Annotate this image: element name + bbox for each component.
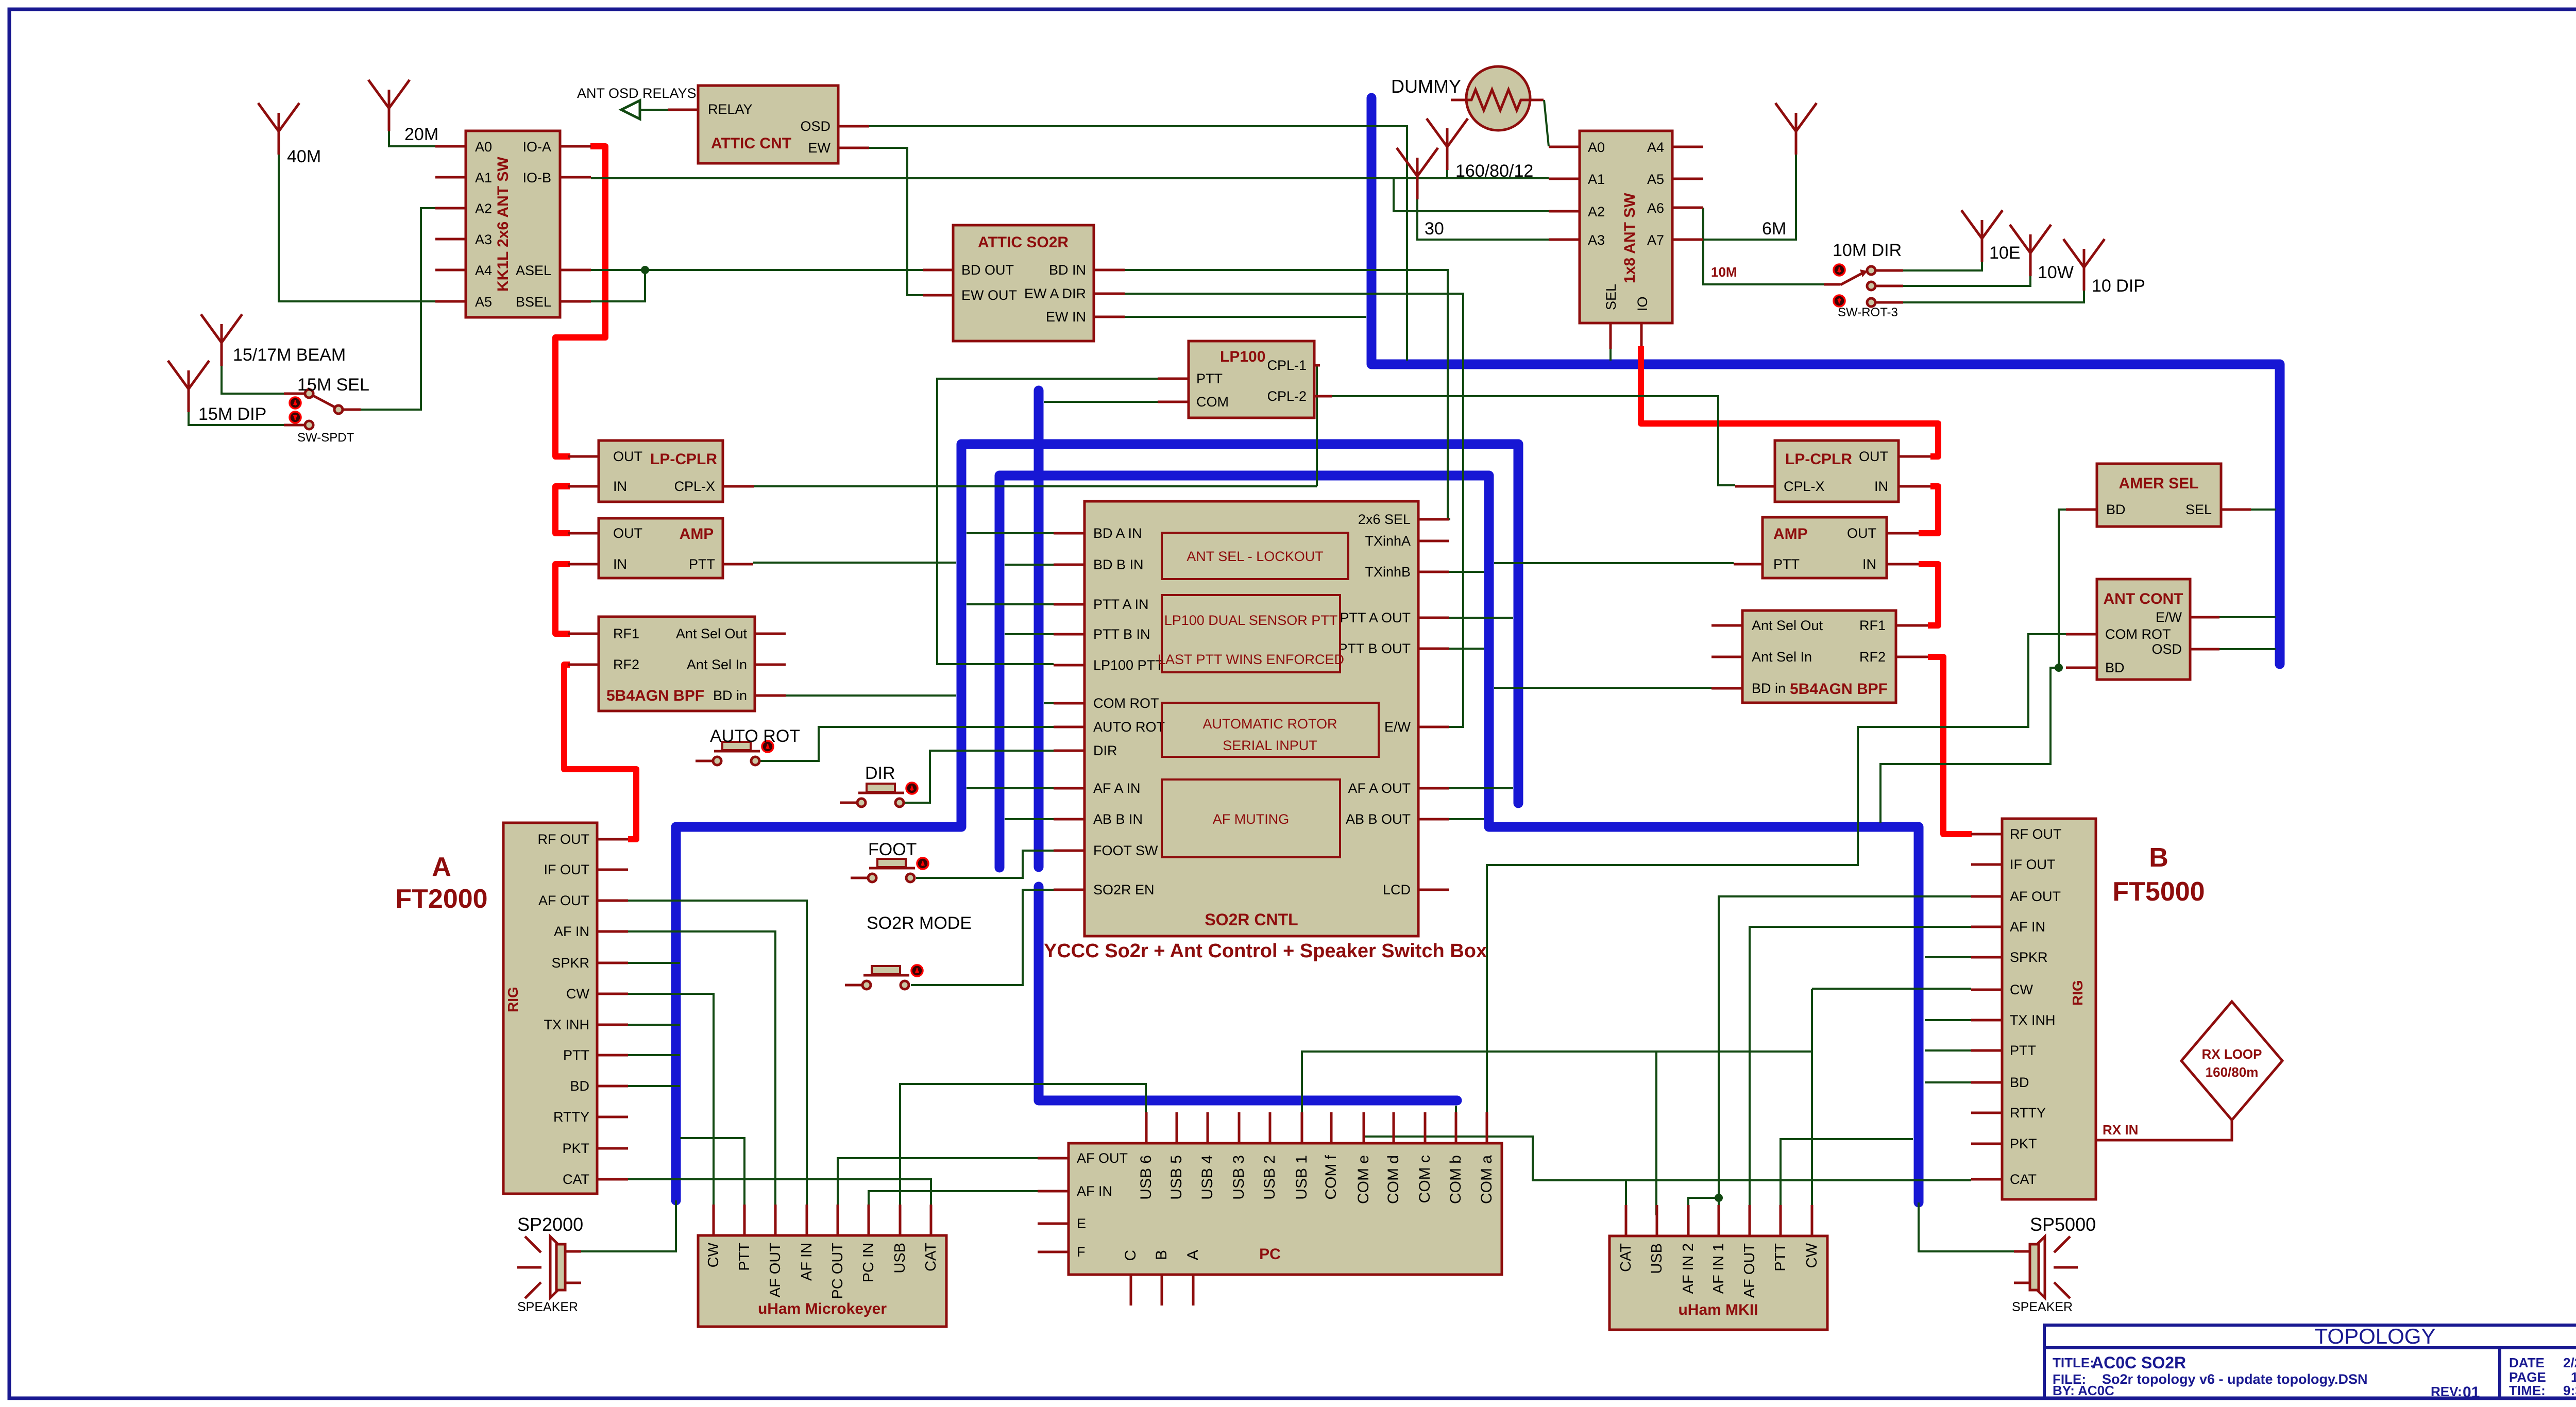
svg-text:OSD: OSD bbox=[800, 118, 831, 134]
svg-text:LCD: LCD bbox=[1383, 882, 1411, 897]
antenna 10E bbox=[1961, 210, 2003, 262]
svg-text:EW IN: EW IN bbox=[1046, 309, 1086, 325]
title block bbox=[2044, 1324, 2576, 1401]
svg-text:AMP: AMP bbox=[680, 525, 714, 543]
svg-text:AUTO ROT: AUTO ROT bbox=[1093, 719, 1165, 735]
controller SO2R CNTL bbox=[1054, 501, 1449, 936]
wire red RF: KK1L IO-A to LP-CPLR OUT bbox=[555, 146, 605, 456]
svg-text:EW OUT: EW OUT bbox=[961, 287, 1017, 303]
node ANT CONT BD junction bbox=[2055, 664, 2063, 672]
svg-text:PTT: PTT bbox=[1772, 1243, 1789, 1272]
wire AMER SEL SEL to blue bus A bbox=[2251, 508, 2276, 511]
wire SO2R CNTL TXinhB to blue bus D bbox=[1449, 571, 1484, 573]
wire SW-ROT-3 bottom throw to 10 DIP antenna bbox=[1903, 291, 2084, 302]
svg-text:15/17M BEAM: 15/17M BEAM bbox=[233, 345, 346, 365]
svg-text:LAST PTT WINS ENFORCED: LAST PTT WINS ENFORCED bbox=[1158, 652, 1344, 667]
svg-text:A: A bbox=[432, 852, 451, 882]
wire uHam MKII CW riser to FT5000 CW bbox=[1812, 989, 1971, 1215]
net label ANT OSD RELAYS with arrow bbox=[577, 86, 697, 119]
svg-text:A0: A0 bbox=[1588, 140, 1605, 155]
svg-text:uHam Microkeyer: uHam Microkeyer bbox=[758, 1300, 887, 1317]
wire 20M antenna to KK1L A0 bbox=[389, 131, 435, 146]
svg-text:B: B bbox=[1153, 1250, 1170, 1260]
wire KK1L ASEL to ATTIC SO2R BD OUT bbox=[591, 269, 925, 271]
svg-text:SO2R EN: SO2R EN bbox=[1093, 882, 1155, 897]
svg-text:PKT: PKT bbox=[2010, 1136, 2037, 1151]
svg-text:A2: A2 bbox=[1588, 204, 1605, 219]
svg-text:BD IN: BD IN bbox=[1049, 262, 1086, 278]
svg-text:IN: IN bbox=[1862, 556, 1876, 572]
svg-text:PC: PC bbox=[1259, 1246, 1281, 1263]
svg-text:EW: EW bbox=[808, 140, 831, 156]
antenna switch 1x8 ANT SW bbox=[1549, 131, 1703, 349]
svg-text:PC OUT: PC OUT bbox=[829, 1243, 846, 1299]
svg-text:RTTY: RTTY bbox=[2010, 1105, 2046, 1121]
svg-text:LP-CPLR: LP-CPLR bbox=[1785, 451, 1852, 468]
wire 1x8 SEL to blue bus A bbox=[1609, 349, 1612, 361]
svg-text:PTT: PTT bbox=[1196, 371, 1223, 386]
svg-text:ANT OSD RELAYS: ANT OSD RELAYS bbox=[577, 86, 697, 101]
wire SW-ROT-3 middle throw to 10W antenna bbox=[1903, 276, 2030, 286]
svg-text:A0: A0 bbox=[475, 139, 492, 155]
antenna 10W bbox=[2010, 225, 2051, 276]
wire uHam MKII PTT to blue bus D bbox=[1781, 1139, 1913, 1215]
svg-text:SP5000: SP5000 bbox=[2030, 1214, 2096, 1235]
svg-text:RF OUT: RF OUT bbox=[2010, 826, 2062, 842]
svg-text:CAT: CAT bbox=[2010, 1172, 2037, 1187]
svg-text:AF IN 1: AF IN 1 bbox=[1710, 1243, 1727, 1294]
svg-text:OUT: OUT bbox=[1847, 525, 1876, 541]
svg-text:FOOT SW: FOOT SW bbox=[1093, 843, 1158, 858]
wire SO2R CNTL AB B IN from blue bus D bbox=[1005, 818, 1054, 820]
wire FT2000 PTT to blue bus bbox=[628, 1054, 680, 1056]
pushbutton FOOT bbox=[851, 858, 928, 882]
coupler right LP-CPLR bbox=[1735, 440, 1930, 502]
svg-text:10M DIR: 10M DIR bbox=[1833, 241, 1902, 260]
svg-text:30: 30 bbox=[1425, 219, 1444, 239]
svg-text:ATTIC SO2R: ATTIC SO2R bbox=[978, 234, 1069, 251]
wire PC COM a to ANT CONT COM ROT bbox=[1487, 634, 2066, 1119]
antenna 20M bbox=[368, 80, 410, 131]
svg-text:RF1: RF1 bbox=[1859, 618, 1886, 633]
svg-text:ASEL: ASEL bbox=[516, 263, 551, 278]
wire FT2000 TX INH to blue bus bbox=[628, 1024, 680, 1026]
svg-text:BD OUT: BD OUT bbox=[961, 262, 1014, 278]
svg-text:BD A IN: BD A IN bbox=[1093, 525, 1142, 541]
svg-text:DUMMY: DUMMY bbox=[1391, 76, 1461, 97]
svg-text:40M: 40M bbox=[287, 147, 321, 166]
wire 15M SEL pole to KK1L A2 bbox=[361, 208, 435, 410]
svg-text:PC IN: PC IN bbox=[860, 1243, 877, 1282]
svg-text:AC0C SO2R: AC0C SO2R bbox=[2092, 1353, 2186, 1372]
wire LP100 CPL-2 to right LP-CPLR CPL-X bbox=[1332, 396, 1735, 485]
svg-text:B: B bbox=[2149, 843, 2168, 873]
wire ANT CONT OSD to blue bus A bbox=[2219, 648, 2276, 650]
amplifier right AMP bbox=[1734, 517, 1919, 578]
bandpass filter right 5B4AGN BPF bbox=[1711, 611, 1928, 703]
svg-text:IO-A: IO-A bbox=[522, 139, 551, 155]
wire blue bus B lower (PC audio to sound card) bbox=[1039, 887, 1457, 1100]
svg-text:AUTOMATIC ROTOR: AUTOMATIC ROTOR bbox=[1202, 716, 1337, 732]
wire blue bus B end to PC COM b bbox=[1455, 1106, 1457, 1119]
wire uHam MKII AF OUT to FT5000 AF IN bbox=[1750, 927, 1971, 1215]
selector AMER SEL bbox=[2066, 464, 2251, 527]
wire FT2000 AF IN to uHam Microkeyer AF OUT bbox=[628, 931, 775, 1205]
svg-text:CPL-2: CPL-2 bbox=[1267, 388, 1307, 404]
svg-text:BD: BD bbox=[2105, 660, 2125, 675]
svg-text:AF IN: AF IN bbox=[554, 924, 589, 939]
svg-text:AF A IN: AF A IN bbox=[1093, 781, 1141, 796]
svg-text:COM ROT: COM ROT bbox=[2105, 626, 2171, 642]
svg-text:PKT: PKT bbox=[562, 1141, 589, 1156]
wire uHam MKII AF IN 1 to FT5000 AF OUT bbox=[1719, 896, 1971, 1215]
controller ANT CONT bbox=[2066, 579, 2219, 680]
svg-text:10 DIP: 10 DIP bbox=[2092, 276, 2145, 296]
pushbutton SO2R MODE bbox=[845, 965, 923, 989]
wire PC USB 1 to blue bus B / CW net bbox=[1302, 1052, 1812, 1119]
svg-text:USB: USB bbox=[1649, 1243, 1665, 1274]
svg-text:TITLE:: TITLE: bbox=[2053, 1355, 2094, 1370]
wire FT5000 SPKR from blue bus D bbox=[1925, 956, 1971, 958]
svg-text:ANT CONT: ANT CONT bbox=[2104, 590, 2183, 607]
svg-text:AB B IN: AB B IN bbox=[1093, 811, 1143, 827]
svg-text:5B4AGN BPF: 5B4AGN BPF bbox=[606, 687, 704, 704]
svg-text:AF OUT: AF OUT bbox=[1077, 1150, 1128, 1166]
svg-text:USB 3: USB 3 bbox=[1230, 1155, 1247, 1200]
svg-text:IN: IN bbox=[1874, 479, 1888, 494]
svg-text:PTT B IN: PTT B IN bbox=[1093, 626, 1150, 642]
svg-text:BD in: BD in bbox=[1752, 681, 1786, 696]
svg-text:EW A DIR: EW A DIR bbox=[1024, 286, 1086, 301]
svg-text:AF MUTING: AF MUTING bbox=[1213, 811, 1290, 827]
wire FT2000 BD to blue bus bbox=[628, 1085, 680, 1087]
svg-text:COM f: COM f bbox=[1323, 1155, 1340, 1199]
switch SW-ROT-3 10M DIR bbox=[1711, 241, 1903, 319]
svg-text:USB 4: USB 4 bbox=[1199, 1155, 1216, 1200]
svg-text:COM: COM bbox=[1196, 394, 1229, 410]
wire SO2R CNTL BD A IN from blue bus C bbox=[967, 532, 1054, 534]
antenna 40M bbox=[258, 103, 299, 155]
wire blue audio bus A (attic/antenna-control bundle) bbox=[1371, 98, 2280, 664]
svg-text:COM a: COM a bbox=[1478, 1155, 1495, 1204]
svg-text:IO-B: IO-B bbox=[522, 170, 551, 185]
wire red RF: BPF RF2 to FT2000 RF OUT bbox=[564, 665, 636, 839]
wire uHam MKII USB riser bbox=[1655, 1052, 1657, 1215]
svg-text:A5: A5 bbox=[475, 294, 492, 310]
svg-text:RF1: RF1 bbox=[613, 626, 639, 641]
wire red RF: AMP IN to BPF RF1 bbox=[555, 564, 570, 634]
svg-text:AF IN: AF IN bbox=[799, 1243, 815, 1281]
svg-text:FT5000: FT5000 bbox=[2112, 877, 2205, 907]
svg-text:CW: CW bbox=[705, 1242, 722, 1267]
speaker SP5000 bbox=[2012, 1214, 2096, 1314]
svg-text:COM b: COM b bbox=[1447, 1155, 1464, 1204]
antenna 160/80/12 bbox=[1427, 118, 1468, 170]
wire LP100 COM from blue bus B bbox=[1044, 401, 1158, 403]
wire uHam Microkeyer PTT to blue bus bbox=[680, 1138, 744, 1205]
bandpass filter left 5B4AGN BPF bbox=[568, 617, 786, 711]
wire SO2R CNTL PTT A OUT to blue bus C bbox=[1449, 617, 1513, 619]
svg-text:2/20/2012: 2/20/2012 bbox=[2563, 1355, 2576, 1370]
wire SO2R CNTL COM ROT from blue bus B bbox=[1044, 702, 1054, 704]
svg-text:OUT: OUT bbox=[1859, 449, 1888, 464]
svg-text:C: C bbox=[1122, 1250, 1139, 1261]
svg-text:USB 1: USB 1 bbox=[1293, 1155, 1310, 1200]
wire LP-CPLR CPL-X to LP100 CPL-1 bbox=[754, 485, 1317, 487]
svg-text:COM e: COM e bbox=[1355, 1155, 1372, 1204]
svg-text:A6: A6 bbox=[1647, 200, 1664, 216]
antenna switch KK1L 2x6 ANT SW bbox=[435, 131, 591, 317]
svg-text:IF OUT: IF OUT bbox=[544, 862, 590, 877]
wire uHam Microkeyer PC IN to PC AF IN bbox=[869, 1191, 1038, 1205]
svg-text:TXinhA: TXinhA bbox=[1365, 533, 1411, 549]
wire SO2R CNTL PTT B IN from blue bus D bbox=[1005, 633, 1054, 635]
svg-text:A: A bbox=[1184, 1250, 1201, 1260]
svg-text:OUT: OUT bbox=[613, 449, 642, 464]
svg-text:AF OUT: AF OUT bbox=[767, 1243, 784, 1298]
wire ATTIC CNT EW to ATTIC SO2R EW OUT bbox=[869, 148, 923, 295]
svg-text:20M: 20M bbox=[404, 125, 438, 144]
svg-text:5B4AGN BPF: 5B4AGN BPF bbox=[1790, 681, 1888, 698]
svg-text:AF OUT: AF OUT bbox=[538, 893, 589, 908]
computer PC box bbox=[1038, 1112, 1502, 1306]
svg-text:OUT: OUT bbox=[613, 525, 642, 541]
svg-text:BY: AC0C: BY: AC0C bbox=[2053, 1383, 2114, 1398]
controller ATTIC CNT bbox=[668, 86, 869, 163]
svg-text:CAT: CAT bbox=[563, 1172, 589, 1187]
wire red RF: right AMP IN to right BPF RF1 bbox=[1919, 564, 1938, 625]
wattmeter LP100 bbox=[1158, 341, 1332, 418]
antenna 30m bbox=[1397, 148, 1438, 199]
svg-text:BD B IN: BD B IN bbox=[1093, 557, 1144, 572]
wire FT5000 PTT from blue bus D bbox=[1925, 1049, 1971, 1052]
svg-text:15M SEL: 15M SEL bbox=[297, 375, 369, 395]
wire KK1L IO-B to 1x8 A2 (40/20/17/15m) bbox=[591, 178, 1549, 211]
svg-text:REV:: REV: bbox=[2431, 1384, 2462, 1399]
svg-text:Ant Sel Out: Ant Sel Out bbox=[676, 626, 748, 641]
wire left AMP PTT to blue bus C bbox=[753, 562, 956, 564]
wire ATTIC SO2R EW IN to blue bus A bbox=[1125, 316, 1366, 318]
svg-text:LP-CPLR: LP-CPLR bbox=[650, 451, 717, 468]
svg-text:SO2R CNTL: SO2R CNTL bbox=[1205, 910, 1298, 929]
svg-text:PTT: PTT bbox=[563, 1047, 589, 1063]
svg-text:E: E bbox=[1077, 1216, 1086, 1231]
svg-text:A7: A7 bbox=[1647, 232, 1664, 248]
wire uHam MKII CAT riser bbox=[1625, 1180, 1627, 1215]
svg-text:DIR: DIR bbox=[865, 764, 895, 783]
svg-text:RX IN: RX IN bbox=[2103, 1122, 2138, 1138]
svg-text:USB 6: USB 6 bbox=[1138, 1155, 1155, 1200]
keyer uHam Microkeyer box bbox=[698, 1205, 946, 1327]
svg-text:LP100 DUAL SENSOR PTT: LP100 DUAL SENSOR PTT bbox=[1164, 613, 1338, 628]
svg-text:E/W: E/W bbox=[1384, 719, 1411, 735]
svg-text:A4: A4 bbox=[1647, 140, 1664, 155]
wire SO2R MODE button to SO2R CNTL SO2R EN bbox=[911, 890, 1054, 985]
svg-text:AUTO ROT: AUTO ROT bbox=[710, 726, 800, 746]
svg-text:RIG: RIG bbox=[2070, 980, 2086, 1006]
svg-text:USB 5: USB 5 bbox=[1168, 1155, 1185, 1200]
keyer uHam MKII box bbox=[1609, 1205, 1827, 1330]
svg-text:PTT: PTT bbox=[2010, 1043, 2036, 1058]
svg-text:RELAY: RELAY bbox=[708, 101, 753, 117]
svg-text:USB 2: USB 2 bbox=[1261, 1155, 1278, 1200]
svg-text:COM ROT: COM ROT bbox=[1093, 696, 1159, 711]
wire FT2000 CW to uHam Microkeyer CW bbox=[628, 994, 714, 1205]
svg-text:TOPOLOGY: TOPOLOGY bbox=[2315, 1324, 2436, 1348]
svg-text:CW: CW bbox=[1804, 1243, 1820, 1268]
wire SO2R CNTL AF A IN from blue bus C bbox=[967, 787, 1054, 789]
svg-text:A3: A3 bbox=[1588, 232, 1605, 248]
svg-text:SPEAKER: SPEAKER bbox=[517, 1300, 578, 1314]
wire blue bus B upper (PC audio) bbox=[1034, 391, 1044, 867]
svg-text:CPL-X: CPL-X bbox=[1784, 479, 1825, 494]
svg-text:SPEAKER: SPEAKER bbox=[2012, 1300, 2073, 1314]
svg-text:PTT A OUT: PTT A OUT bbox=[1340, 610, 1411, 625]
wire FT5000 TX INH from blue bus D bbox=[1925, 1019, 1971, 1021]
coupler left LP-CPLR bbox=[568, 440, 754, 502]
svg-text:RF2: RF2 bbox=[1859, 649, 1886, 665]
wire SO2R CNTL PTT B OUT to blue bus D bbox=[1449, 648, 1484, 650]
svg-text:BD: BD bbox=[570, 1078, 589, 1094]
resistor DUMMY load bbox=[1391, 66, 1549, 146]
pin FT5000 RX IN bbox=[2096, 1120, 2232, 1140]
wire SO2R CNTL BD B IN from blue bus D bbox=[1005, 564, 1054, 566]
svg-text:SPKR: SPKR bbox=[551, 955, 589, 971]
svg-text:DATE: DATE bbox=[2509, 1355, 2545, 1370]
wire uHam Microkeyer PC OUT to PC AF OUT bbox=[838, 1158, 1038, 1205]
svg-text:RTTY: RTTY bbox=[553, 1109, 589, 1125]
rig B FT5000 RIG box bbox=[1971, 819, 2096, 1199]
antenna 6M bbox=[1775, 103, 1817, 155]
wire FT2000 SPKR to blue bus bbox=[628, 962, 680, 964]
svg-text:TX INH: TX INH bbox=[2010, 1012, 2056, 1028]
svg-text:AF IN: AF IN bbox=[2010, 919, 2045, 935]
svg-text:RF2: RF2 bbox=[613, 657, 639, 672]
wire ANT CONT E/W to blue bus A bbox=[2219, 616, 2276, 618]
wire 15/17M beam antenna to 15M SEL top throw bbox=[222, 366, 284, 394]
svg-text:AF IN 2: AF IN 2 bbox=[1680, 1243, 1697, 1294]
svg-text:So2r topology v6 - update topo: So2r topology v6 - update topology.DSN bbox=[2102, 1371, 2368, 1387]
wire ATTIC CNT OSD to blue bus A bbox=[869, 126, 1407, 361]
svg-text:CAT: CAT bbox=[1618, 1243, 1634, 1272]
wire ATTIC SO2R BD IN to SO2R CNTL 2x6 SEL bbox=[1125, 270, 1450, 519]
wire ANT CONT BD node to AMER SEL BD bbox=[2059, 510, 2066, 668]
svg-text:PTT: PTT bbox=[689, 556, 715, 572]
svg-text:RIG: RIG bbox=[505, 987, 521, 1012]
wire SO2R CNTL PTT A IN from blue bus C bbox=[967, 603, 1054, 605]
svg-text:AMER SEL: AMER SEL bbox=[2119, 475, 2198, 492]
wire 160/80/12 antenna to 1x8 A1 bbox=[1391, 170, 1549, 178]
wire DIR button to SO2R CNTL DIR bbox=[904, 751, 1054, 803]
node ASEL junction bbox=[641, 266, 649, 274]
antenna RX LOOP 160/80m bbox=[2181, 1002, 2282, 1120]
svg-text:BD: BD bbox=[2106, 502, 2126, 517]
wire 30m antenna to 1x8 A3 bbox=[1417, 199, 1549, 240]
svg-text:PTT: PTT bbox=[1773, 556, 1800, 572]
svg-text:SEL: SEL bbox=[1603, 284, 1619, 310]
svg-text:1x8 ANT SW: 1x8 ANT SW bbox=[1621, 193, 1638, 283]
svg-text:CAT: CAT bbox=[923, 1243, 939, 1272]
svg-text:F: F bbox=[1077, 1244, 1086, 1260]
wire 40M antenna to KK1L A5 bbox=[279, 155, 435, 301]
svg-text:A3: A3 bbox=[475, 232, 492, 247]
wire uHam Microkeyer USB to PC USB 6 bbox=[900, 1084, 1146, 1205]
rig A FT2000 RIG box bbox=[503, 823, 628, 1194]
amplifier left AMP bbox=[568, 518, 753, 578]
svg-text:FT2000: FT2000 bbox=[395, 884, 487, 914]
svg-text:PTT B OUT: PTT B OUT bbox=[1338, 641, 1411, 656]
svg-text:SO2R MODE: SO2R MODE bbox=[867, 913, 972, 933]
wire red RF: right BPF RF2 to FT5000 RF OUT bbox=[1928, 657, 1972, 834]
wire SW-ROT-3 top throw to 10E antenna bbox=[1903, 262, 1982, 270]
svg-text:E/W: E/W bbox=[2156, 609, 2182, 625]
svg-text:IF OUT: IF OUT bbox=[2010, 857, 2056, 872]
wire FT2000 AF OUT to uHam Microkeyer AF IN bbox=[628, 901, 807, 1205]
wire SO2R CNTL AF A OUT to blue bus C bbox=[1449, 787, 1513, 789]
wire blue bus C (rig A audio) bbox=[676, 444, 1518, 1200]
svg-text:KK1L 2x6 ANT SW: KK1L 2x6 ANT SW bbox=[495, 157, 512, 292]
wire LP100 CPL-1 down to CPL-X line bbox=[1316, 365, 1318, 486]
wire 1x8 A6 to SW-ROT-3 pole (10M) bbox=[1703, 208, 1824, 284]
wire blue bus D tail to SP5000 speaker bbox=[1919, 1202, 2014, 1251]
svg-text:COM d: COM d bbox=[1385, 1155, 1402, 1204]
svg-text:2x6 SEL: 2x6 SEL bbox=[1358, 512, 1411, 527]
svg-text:TXinhB: TXinhB bbox=[1365, 564, 1411, 580]
wire uHam MKII AF IN 2 jog to AF IN 1 riser bbox=[1688, 1198, 1719, 1215]
svg-text:Ant Sel In: Ant Sel In bbox=[1752, 649, 1812, 665]
svg-text:9:30:08 PM: 9:30:08 PM bbox=[2563, 1383, 2576, 1398]
svg-text:LP100: LP100 bbox=[1220, 348, 1265, 365]
svg-text:IN: IN bbox=[613, 556, 627, 572]
svg-text:A1: A1 bbox=[1588, 172, 1605, 187]
wire ASEL branch to KK1L BSEL bbox=[591, 270, 645, 301]
svg-text:CPL-1: CPL-1 bbox=[1267, 358, 1307, 373]
svg-text:SW-SPDT: SW-SPDT bbox=[297, 431, 354, 445]
svg-text:OSD: OSD bbox=[2151, 641, 2182, 657]
svg-text:BD: BD bbox=[2010, 1075, 2029, 1090]
svg-text:160/80m: 160/80m bbox=[2206, 1064, 2259, 1080]
svg-text:SP2000: SP2000 bbox=[517, 1214, 583, 1235]
svg-text:YCCC So2r + Ant Control + Spea: YCCC So2r + Ant Control + Speaker Switch… bbox=[1044, 940, 1487, 962]
svg-text:IO: IO bbox=[1635, 296, 1650, 311]
switch box ATTIC SO2R bbox=[923, 225, 1125, 341]
svg-text:AMP: AMP bbox=[1773, 525, 1808, 543]
antenna 15/17M beam bbox=[201, 314, 242, 366]
antenna 15M dipole bbox=[168, 361, 209, 412]
wire blue bus D (rig B audio) bbox=[999, 476, 1919, 1202]
svg-text:A5: A5 bbox=[1647, 172, 1664, 187]
svg-text:ATTIC CNT: ATTIC CNT bbox=[711, 135, 791, 152]
svg-text:BSEL: BSEL bbox=[516, 294, 551, 310]
antenna 10 DIP bbox=[2063, 239, 2105, 291]
svg-text:LP100 PTT: LP100 PTT bbox=[1093, 657, 1164, 673]
svg-text:TIME:: TIME: bbox=[2509, 1383, 2546, 1398]
svg-text:Ant Sel In: Ant Sel In bbox=[687, 657, 747, 672]
pushbutton AUTO ROT bbox=[696, 741, 773, 765]
wire right AMP PTT from blue bus D bbox=[1494, 562, 1734, 564]
svg-text:15M DIP: 15M DIP bbox=[198, 404, 266, 424]
svg-text:SERIAL INPUT: SERIAL INPUT bbox=[1223, 738, 1317, 753]
svg-text:10E: 10E bbox=[1989, 243, 2021, 263]
svg-text:160/80/12: 160/80/12 bbox=[1455, 161, 1533, 181]
wire 1x8 A7 to 6M antenna bbox=[1703, 155, 1796, 240]
wire PC COM e to uHam MKII CAT and FT5000 CAT bbox=[1364, 1112, 1971, 1180]
wire blue bus tail to SP2000 speaker bbox=[565, 1200, 676, 1251]
wire ATTIC SO2R EW A DIR to SO2R CNTL E/W bbox=[1125, 294, 1463, 727]
svg-text:01: 01 bbox=[2463, 1384, 2480, 1401]
svg-text:AF A OUT: AF A OUT bbox=[1348, 781, 1411, 796]
svg-text:A4: A4 bbox=[475, 263, 492, 278]
